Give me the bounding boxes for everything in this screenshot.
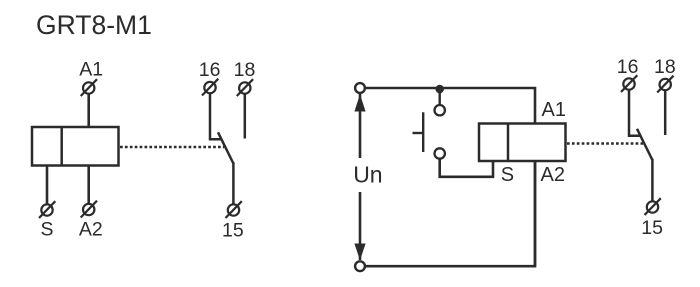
svg-text:A2: A2 bbox=[541, 164, 565, 186]
supply line Un (vertical with gap for label) bbox=[359, 93, 362, 260]
supply arrow up bbox=[354, 94, 365, 111]
supply arrow down bbox=[354, 244, 365, 261]
junction dot on top rail bbox=[435, 85, 444, 94]
contact blade 15-16 (left) bbox=[218, 132, 233, 163]
terminal 18 (left) bbox=[237, 79, 253, 96]
wire 18 stub (right) bbox=[664, 91, 667, 135]
wire top supply rail (right) bbox=[360, 88, 535, 124]
relay coil block K1 (right) bbox=[479, 124, 566, 162]
contact blade 15-16 (right) bbox=[637, 129, 652, 160]
svg-text:S: S bbox=[40, 219, 53, 241]
wire blade to terminal 15 (left) bbox=[232, 162, 235, 203]
wire pushbutton bottom contact to S terminal bbox=[440, 159, 493, 177]
terminal 16 (right) bbox=[621, 75, 637, 92]
terminal A2 (left) bbox=[81, 201, 97, 218]
svg-text:18: 18 bbox=[654, 56, 676, 78]
terminal S (left) bbox=[39, 201, 55, 218]
svg-text:A1: A1 bbox=[542, 99, 566, 121]
svg-text:A2: A2 bbox=[79, 219, 103, 241]
svg-text:16: 16 bbox=[199, 59, 221, 81]
wire S to coil (left) bbox=[46, 166, 49, 205]
wire 16 to contact pivot (right) bbox=[629, 91, 640, 136]
svg-text:Un: Un bbox=[353, 162, 382, 188]
mechanical linkage dotted line (right) bbox=[567, 142, 644, 145]
terminal 15 (right) bbox=[645, 198, 661, 215]
wire A1 to coil (left) bbox=[87, 94, 90, 127]
mechanical linkage dotted line (left) bbox=[120, 146, 224, 149]
wire bottom supply rail (right) bbox=[360, 161, 535, 266]
svg-text:GRT8-M1: GRT8-M1 bbox=[36, 10, 152, 40]
pushbutton S1 bottom contact bbox=[435, 148, 445, 158]
supply terminal top (open circle) bbox=[355, 83, 365, 93]
terminal 15 (left) bbox=[226, 201, 242, 218]
wire blade to terminal 15 (right) bbox=[651, 159, 654, 201]
svg-text:15: 15 bbox=[222, 219, 244, 241]
wire 18 stub (left) bbox=[244, 95, 247, 139]
wire junction to pushbutton top contact bbox=[439, 89, 441, 105]
svg-text:S: S bbox=[501, 164, 514, 186]
pushbutton actuator stem bbox=[413, 132, 424, 134]
supply terminal bottom (open circle) bbox=[355, 261, 365, 271]
relay coil block K1 (left) bbox=[32, 127, 119, 166]
wire A2 to bottom rail (right) bbox=[534, 161, 537, 266]
terminal A1 (left) bbox=[81, 79, 97, 96]
svg-text:16: 16 bbox=[617, 56, 639, 78]
terminal 16 (left) bbox=[202, 79, 218, 96]
pushbutton actuator bar bbox=[422, 112, 424, 152]
svg-text:A1: A1 bbox=[79, 59, 103, 81]
wire 16 to contact pivot (left) bbox=[210, 94, 221, 139]
svg-text:18: 18 bbox=[234, 59, 256, 81]
pushbutton S1 top contact bbox=[435, 105, 445, 115]
svg-text:15: 15 bbox=[641, 217, 663, 239]
terminal 18 (right) bbox=[657, 76, 673, 93]
wire A2 to coil (left) bbox=[87, 166, 90, 204]
